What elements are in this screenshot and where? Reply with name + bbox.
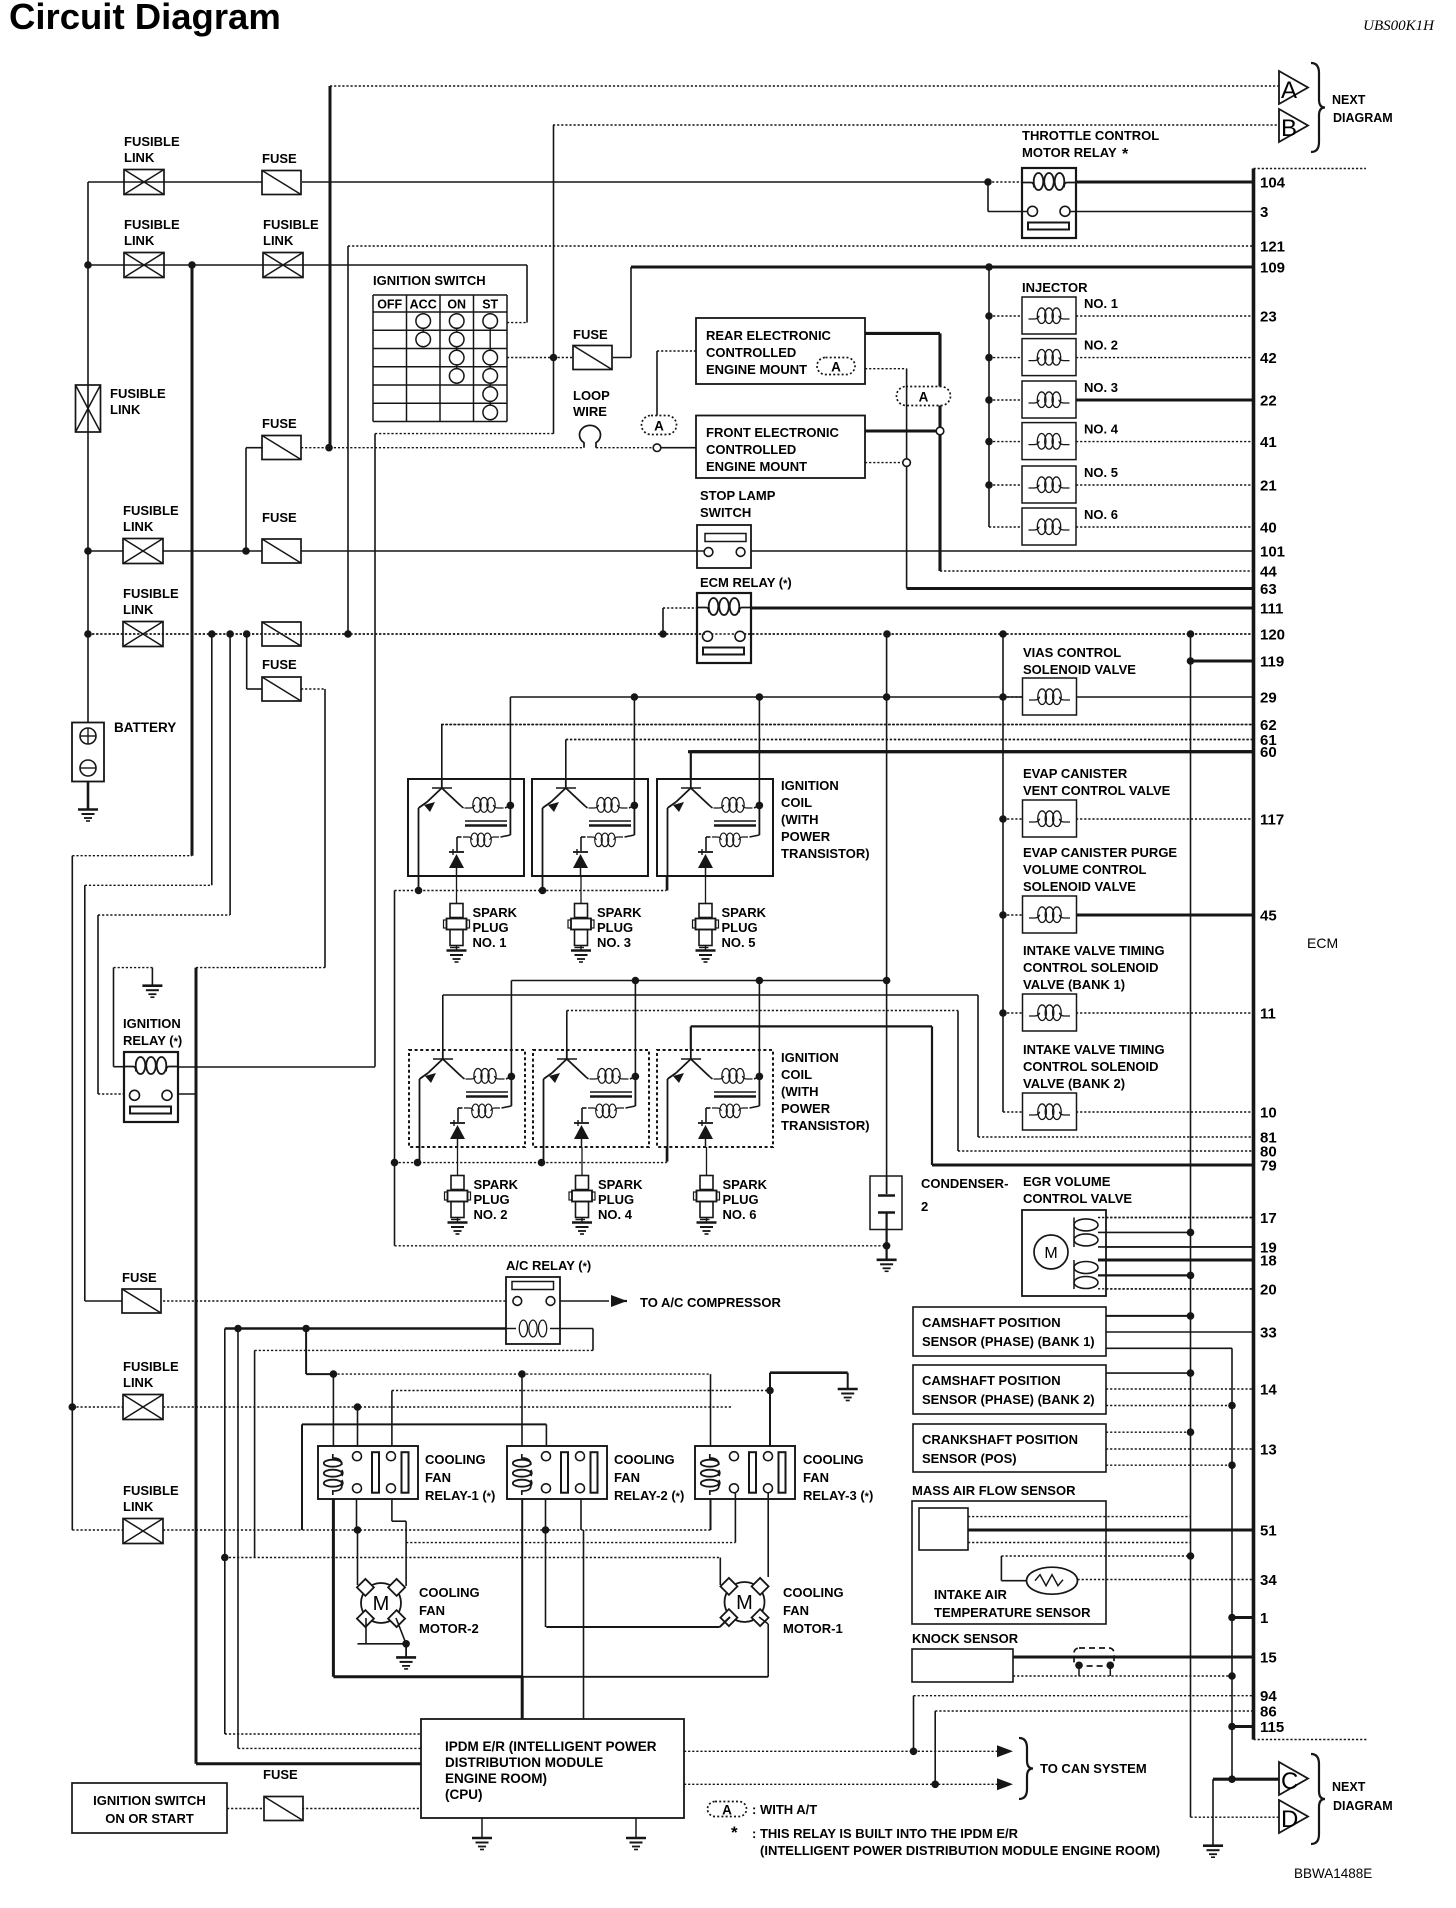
junction xyxy=(354,1403,362,1411)
junction xyxy=(242,547,250,555)
junction xyxy=(402,1640,410,1648)
svg-text:MOTOR-1: MOTOR-1 xyxy=(783,1621,843,1636)
junction xyxy=(985,396,993,404)
wire to C xyxy=(1213,1778,1279,1781)
ivt bank1 coil xyxy=(1023,994,1077,1031)
wire row FL8 xyxy=(163,1529,711,1531)
pin label 104 xyxy=(1260,175,1286,192)
vertical xyxy=(769,1373,771,1446)
egr box xyxy=(1022,1210,1106,1296)
wire xyxy=(114,1066,125,1068)
label IGNITION SWITCH xyxy=(373,273,486,288)
wire ECM pin 10 xyxy=(1076,1111,1254,1113)
wire ECM pin 19 xyxy=(1106,1246,1254,1248)
label LINK xyxy=(123,602,154,617)
svg-text:COOLING: COOLING xyxy=(783,1585,844,1600)
wire ECM pin 63 xyxy=(907,587,1254,590)
cooling fan relay-1 xyxy=(318,1446,418,1499)
arrow xyxy=(997,1778,1013,1790)
camshaft bank1 box xyxy=(913,1307,1106,1356)
vertical xyxy=(690,1026,692,1050)
svg-text:ST: ST xyxy=(482,298,498,312)
wire xyxy=(1001,1555,1190,1557)
svg-text:KNOCK SENSOR: KNOCK SENSOR xyxy=(912,1631,1019,1646)
junction xyxy=(84,547,92,555)
svg-text:NO. 3: NO. 3 xyxy=(1084,380,1118,395)
svg-text:DISTRIBUTION MODULE: DISTRIBUTION MODULE xyxy=(445,1755,603,1770)
label LINK xyxy=(124,233,155,248)
svg-text:TRANSISTOR): TRANSISTOR) xyxy=(781,1118,870,1133)
fusible link xyxy=(123,622,163,647)
wire xyxy=(85,1300,122,1302)
svg-text:NO. 4: NO. 4 xyxy=(598,1207,633,1222)
svg-text:A: A xyxy=(722,1803,732,1818)
svg-text:POWER: POWER xyxy=(781,829,831,844)
junction xyxy=(1187,1428,1195,1436)
wire xyxy=(1106,1372,1191,1374)
wire CAN1 xyxy=(684,1750,1005,1752)
wire xyxy=(114,967,153,969)
wire ECM pin 11 xyxy=(1076,1012,1254,1014)
wire ECM pin 51 xyxy=(968,1528,1254,1531)
wire ECM pin 20 xyxy=(1106,1288,1254,1290)
wire xyxy=(989,357,1022,359)
vertical xyxy=(719,1558,721,1586)
junction xyxy=(1228,1723,1236,1731)
spark plug xyxy=(569,1176,595,1235)
junction xyxy=(985,263,993,271)
motor1 bottom xyxy=(720,1617,769,1627)
svg-text:SPARK: SPARK xyxy=(473,905,518,920)
svg-text:M: M xyxy=(736,1592,753,1614)
vertical xyxy=(957,1011,959,1152)
wire row61 xyxy=(566,739,1254,741)
spark plug xyxy=(693,904,719,963)
vertical V-B xyxy=(553,125,555,434)
svg-text:40: 40 xyxy=(1260,520,1277,537)
label xyxy=(93,1793,206,1826)
svg-text:RELAY-3 (*): RELAY-3 (*) xyxy=(803,1488,873,1503)
svg-text:FAN: FAN xyxy=(803,1470,829,1485)
spark plug xyxy=(568,904,594,963)
svg-text:FUSIBLE: FUSIBLE xyxy=(124,217,180,232)
label xyxy=(922,1315,1095,1349)
junction xyxy=(999,1009,1007,1017)
label NEXT xyxy=(1332,1780,1366,1794)
svg-text:POWER: POWER xyxy=(781,1101,831,1116)
junction xyxy=(226,630,234,638)
figure code BBWA1488E xyxy=(1294,1866,1372,1881)
wire ac coil left xyxy=(225,1327,506,1330)
ac relay coil xyxy=(519,1320,547,1337)
svg-text:INTAKE VALVE TIMING: INTAKE VALVE TIMING xyxy=(1023,1042,1165,1057)
connector oval A xyxy=(817,358,855,375)
ignition switch contacts xyxy=(416,314,498,420)
svg-text:13: 13 xyxy=(1260,1442,1277,1459)
wire ECM pin 13 xyxy=(1106,1448,1254,1450)
note oval A xyxy=(708,1802,747,1818)
wire to D xyxy=(1191,1816,1280,1818)
wire row motor right xyxy=(406,1542,735,1544)
svg-text:A: A xyxy=(654,419,664,434)
svg-text:120: 120 xyxy=(1260,627,1285,644)
wire row1424 xyxy=(302,1423,546,1425)
svg-text:EVAP CANISTER PURGE: EVAP CANISTER PURGE xyxy=(1023,845,1177,860)
pin label 101 xyxy=(1260,544,1285,561)
stop lamp contact xyxy=(736,548,745,557)
pin label 121 xyxy=(1260,239,1285,256)
wire row coil feed xyxy=(333,1373,710,1375)
label xyxy=(614,1452,684,1503)
pin label 33 xyxy=(1260,1325,1277,1342)
junction xyxy=(330,1370,338,1378)
label IGNITION COIL xyxy=(781,1050,870,1133)
junction xyxy=(508,1073,516,1081)
label FUSE xyxy=(262,657,297,672)
wire xyxy=(246,447,263,449)
svg-text:ON: ON xyxy=(447,298,466,312)
svg-text:D: D xyxy=(1281,1806,1298,1833)
label WIRE xyxy=(573,404,607,419)
label FUSIBLE xyxy=(123,586,179,601)
svg-text:: THIS RELAY IS BUILT INTO THE: : THIS RELAY IS BUILT INTO THE IPDM E/R xyxy=(752,1826,1019,1841)
wire ECM pin 115 xyxy=(1232,1725,1254,1728)
note relay xyxy=(752,1826,1019,1841)
fuse xyxy=(262,171,301,195)
vertical xyxy=(566,1011,568,1051)
maf outer box xyxy=(912,1501,1106,1624)
wire xyxy=(1003,696,1023,698)
label NO. 2 xyxy=(1084,338,1118,353)
pin label 22 xyxy=(1260,393,1277,410)
pin label 29 xyxy=(1260,690,1277,707)
svg-text:NO. 4: NO. 4 xyxy=(1084,422,1119,437)
svg-text:INTAKE VALVE TIMING: INTAKE VALVE TIMING xyxy=(1023,943,1165,958)
label BATTERY xyxy=(114,720,176,735)
label FUSIBLE xyxy=(110,386,166,401)
svg-text:SWITCH: SWITCH xyxy=(700,505,751,520)
wire row29 xyxy=(510,696,1022,698)
wire xyxy=(989,484,1022,486)
wire xyxy=(596,447,653,449)
label IGNITION COIL xyxy=(781,778,870,861)
evap vent coil xyxy=(1023,800,1077,837)
label SWITCH xyxy=(700,505,751,520)
svg-text:INTAKE AIR: INTAKE AIR xyxy=(934,1587,1008,1602)
svg-text:EGR VOLUME: EGR VOLUME xyxy=(1023,1174,1111,1189)
svg-text:RELAY-1 (*): RELAY-1 (*) xyxy=(425,1488,495,1503)
junction xyxy=(1187,657,1195,665)
label FUSIBLE xyxy=(123,1359,179,1390)
svg-text:PLUG: PLUG xyxy=(722,920,758,935)
svg-text:FRONT ELECTRONIC: FRONT ELECTRONIC xyxy=(706,425,839,440)
egr motor xyxy=(1034,1235,1068,1269)
svg-text:TO CAN SYSTEM: TO CAN SYSTEM xyxy=(1040,1761,1147,1776)
svg-text:DIAGRAM: DIAGRAM xyxy=(1333,1799,1393,1813)
label DIAGRAM xyxy=(1333,111,1393,125)
wire xyxy=(1098,1217,1254,1219)
vertical xyxy=(977,995,979,1137)
vertical xyxy=(357,1407,359,1446)
wire gnd row xyxy=(395,1245,887,1247)
cooling fan relay-3 xyxy=(695,1446,795,1499)
wire ECM pin 60 xyxy=(688,750,1254,753)
svg-text:VALVE (BANK 1): VALVE (BANK 1) xyxy=(1023,977,1125,992)
ECM label xyxy=(1307,935,1338,951)
svg-text:FUSE: FUSE xyxy=(262,416,297,431)
ignition relay xyxy=(124,1052,178,1122)
wire ECM pin 15 xyxy=(1013,1655,1254,1658)
svg-text:FUSE: FUSE xyxy=(262,151,297,166)
label FUSE xyxy=(262,151,297,166)
svg-text:34: 34 xyxy=(1260,1572,1277,1589)
ECM bus line xyxy=(1252,169,1256,1740)
junction xyxy=(344,630,352,638)
svg-text:10: 10 xyxy=(1260,1105,1277,1122)
wire row ground relays xyxy=(392,1390,770,1392)
vertical gnd rail xyxy=(394,891,396,1246)
wire coil left xyxy=(663,607,697,609)
wire ECM pin 29 xyxy=(1076,696,1254,698)
svg-text:TEMPERATURE SENSOR: TEMPERATURE SENSOR xyxy=(934,1605,1091,1620)
junction xyxy=(985,354,993,362)
ignition coil unit 1 (bank1) xyxy=(408,779,524,891)
wire gnd row bank2 xyxy=(395,1162,667,1164)
crankshaft box xyxy=(913,1424,1106,1472)
fusible link vertical xyxy=(76,385,101,432)
vertical motor2 left xyxy=(357,1530,359,1585)
wire ECM pin 119 xyxy=(1191,659,1254,662)
svg-text:111: 111 xyxy=(1260,601,1283,618)
wire xyxy=(227,1808,264,1810)
label KNOCK xyxy=(912,1631,1019,1646)
label xyxy=(706,362,807,377)
wire ECM pin 104 xyxy=(1076,180,1254,183)
pin label 19 xyxy=(1260,1240,1277,1257)
label FUSE xyxy=(262,510,297,525)
svg-text:SPARK: SPARK xyxy=(722,905,767,920)
svg-text:SENSOR (POS): SENSOR (POS) xyxy=(922,1451,1017,1466)
svg-text:ON OR START: ON OR START xyxy=(105,1811,194,1826)
wire xyxy=(938,333,941,386)
svg-text:CONTROLLED: CONTROLLED xyxy=(706,442,796,457)
junction xyxy=(69,1403,77,1411)
arrow to compressor xyxy=(611,1295,627,1307)
svg-text:FUSIBLE: FUSIBLE xyxy=(124,134,180,149)
vertical valve rail xyxy=(1002,634,1004,1112)
wire xyxy=(1003,1111,1023,1113)
junction xyxy=(539,887,547,895)
svg-text:SOLENOID VALVE: SOLENOID VALVE xyxy=(1023,662,1136,677)
svg-text:ECM RELAY (*): ECM RELAY (*) xyxy=(700,575,792,590)
spark plug xyxy=(444,904,470,963)
wire xyxy=(706,1147,708,1176)
wire ECM pin 80 xyxy=(958,1150,1254,1152)
wire xyxy=(1013,1675,1232,1677)
junction xyxy=(234,1325,242,1333)
vertical xyxy=(391,1391,393,1447)
wire xyxy=(934,1711,936,1784)
svg-text:3: 3 xyxy=(1260,204,1268,221)
pin label 41 xyxy=(1260,434,1277,451)
label xyxy=(419,1585,480,1636)
note asterisk xyxy=(731,1823,738,1842)
wire ECM pin 79 xyxy=(932,1163,1254,1166)
svg-text:IGNITION: IGNITION xyxy=(781,1050,839,1065)
injector coil NO. 1 xyxy=(1022,297,1076,334)
pin label 40 xyxy=(1260,520,1277,537)
wire ECM pin 34 xyxy=(1078,1579,1254,1581)
doc code UBS00K1H xyxy=(1363,18,1435,34)
wire xyxy=(392,1520,406,1522)
vertical V121 xyxy=(347,246,349,634)
wire xyxy=(85,884,212,886)
wire xyxy=(196,1762,421,1765)
svg-text:FUSIBLE: FUSIBLE xyxy=(110,386,166,401)
svg-text:PLUG: PLUG xyxy=(598,1192,634,1207)
svg-text:109: 109 xyxy=(1260,260,1285,277)
svg-text:SENSOR (PHASE) (BANK 1): SENSOR (PHASE) (BANK 1) xyxy=(922,1334,1095,1349)
pin label 117 xyxy=(1260,812,1284,829)
vertical xyxy=(710,1499,712,1530)
ground xyxy=(78,810,98,822)
svg-text:CONTROL VALVE: CONTROL VALVE xyxy=(1023,1191,1132,1206)
label IPDM xyxy=(445,1739,657,1802)
svg-text:LINK: LINK xyxy=(110,402,141,417)
wire xyxy=(507,322,527,324)
wire xyxy=(98,1093,124,1095)
svg-text:CRANKSHAFT POSITION: CRANKSHAFT POSITION xyxy=(922,1432,1078,1447)
svg-text:45: 45 xyxy=(1260,908,1277,925)
wire xyxy=(906,466,908,589)
wire xyxy=(391,1499,393,1521)
svg-text:B: B xyxy=(1281,115,1297,142)
label TO CAN SYSTEM xyxy=(1040,1761,1147,1776)
wire xyxy=(238,1747,421,1749)
junction xyxy=(243,630,251,638)
wire xyxy=(989,315,1022,317)
wire row1557 xyxy=(225,1557,721,1559)
vertical xyxy=(565,740,567,780)
junction xyxy=(391,1159,399,1167)
svg-text:51: 51 xyxy=(1260,1523,1277,1540)
junction xyxy=(984,178,992,186)
knock shield connector xyxy=(1074,1648,1114,1666)
label SPARK PLUG xyxy=(722,905,767,950)
label EGR xyxy=(1023,1174,1132,1206)
vertical xyxy=(301,1424,303,1530)
title text xyxy=(9,0,281,37)
svg-text:29: 29 xyxy=(1260,690,1277,707)
pin label 81 xyxy=(1260,1130,1277,1147)
svg-text:33: 33 xyxy=(1260,1325,1277,1342)
wire xyxy=(656,351,658,416)
wire ECM pin 33 xyxy=(1106,1331,1254,1333)
wire xyxy=(988,181,1022,183)
ecm relay xyxy=(697,593,751,663)
svg-text:63: 63 xyxy=(1260,581,1277,598)
wire xyxy=(770,1371,848,1374)
label DIAGRAM xyxy=(1333,1799,1393,1813)
pin label 21 xyxy=(1260,478,1277,495)
junction xyxy=(507,802,515,810)
ignition switch on/start box xyxy=(72,1783,227,1833)
ground xyxy=(396,1657,416,1669)
evap purge coil xyxy=(1023,896,1077,933)
wire ECM pin 44 xyxy=(940,570,1254,572)
wire xyxy=(1098,1246,1254,1248)
junction xyxy=(931,1781,939,1789)
wire bank2 t1 feed xyxy=(443,994,978,996)
svg-text:SPARK: SPARK xyxy=(598,1177,643,1192)
svg-text:SOLENOID VALVE: SOLENOID VALVE xyxy=(1023,879,1136,894)
wire xyxy=(554,357,574,359)
label FUSIBLE xyxy=(123,503,179,518)
junction xyxy=(208,630,216,638)
label NO. 5 xyxy=(1084,465,1118,480)
ac relay bar xyxy=(512,1282,554,1290)
svg-text:IGNITION: IGNITION xyxy=(781,778,839,793)
fuse xyxy=(262,539,301,563)
vertical xyxy=(931,1026,933,1165)
svg-text:41: 41 xyxy=(1260,434,1277,451)
wire row120 xyxy=(88,633,1254,635)
label ECM RELAY xyxy=(700,575,792,590)
wire ECM pin 14 xyxy=(1106,1388,1254,1390)
svg-text:79: 79 xyxy=(1260,1158,1277,1175)
wire ECM pin 17 xyxy=(1106,1217,1254,1219)
fuse xyxy=(262,677,301,701)
loop wire symbol xyxy=(580,425,601,447)
ivt bank2 coil xyxy=(1023,1093,1077,1130)
wire xyxy=(72,1406,123,1408)
svg-text:RELAY (*): RELAY (*) xyxy=(123,1033,182,1048)
junction xyxy=(415,887,423,895)
pin label 34 xyxy=(1260,1572,1277,1589)
pin label 44 xyxy=(1260,564,1277,581)
pin label 42 xyxy=(1260,350,1277,367)
svg-text:60: 60 xyxy=(1260,744,1277,761)
pin label 11 xyxy=(1260,1006,1276,1023)
junction xyxy=(632,1073,640,1081)
label LINK xyxy=(124,150,155,165)
wire xyxy=(333,1675,522,1678)
svg-text:20: 20 xyxy=(1260,1282,1277,1299)
junction xyxy=(631,693,639,701)
svg-text:ENGINE MOUNT: ENGINE MOUNT xyxy=(706,459,807,474)
svg-text:(WITH: (WITH xyxy=(781,1084,819,1099)
wire xyxy=(302,181,988,183)
svg-text:RELAY-2 (*): RELAY-2 (*) xyxy=(614,1488,684,1503)
label SPARK PLUG xyxy=(474,1177,519,1222)
label STOP LAMP xyxy=(700,488,776,503)
svg-text:101: 101 xyxy=(1260,544,1285,561)
vertical xyxy=(545,1499,547,1627)
wire xyxy=(1003,914,1023,916)
ipdm box xyxy=(421,1719,684,1818)
pin label 61 xyxy=(1260,732,1277,749)
maf inner box xyxy=(919,1508,968,1550)
svg-text:15: 15 xyxy=(1260,1650,1277,1667)
vertical xyxy=(666,876,668,891)
svg-text:115: 115 xyxy=(1260,1719,1284,1736)
svg-text:IGNITION SWITCH: IGNITION SWITCH xyxy=(93,1793,206,1808)
pin label 13 xyxy=(1260,1442,1277,1459)
label SPARK PLUG xyxy=(723,1177,768,1222)
wire xyxy=(163,1300,506,1302)
label LOOP xyxy=(573,388,610,403)
vertical xyxy=(710,1374,712,1446)
